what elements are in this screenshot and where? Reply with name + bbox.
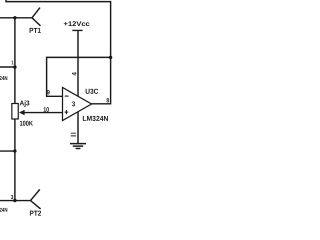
svg-text:1: 1: [11, 60, 13, 66]
svg-text:PT2: PT2: [30, 209, 42, 218]
svg-text:3: 3: [72, 101, 75, 108]
svg-text:4: 4: [71, 72, 78, 76]
svg-text:8: 8: [106, 97, 109, 104]
svg-text:+12Vcc: +12Vcc: [64, 21, 90, 28]
svg-text:24N: 24N: [0, 208, 8, 214]
svg-text:LM324N: LM324N: [82, 115, 108, 123]
svg-text:100K: 100K: [19, 121, 33, 128]
svg-text:9: 9: [47, 89, 51, 96]
svg-text:Aj3: Aj3: [20, 99, 30, 107]
svg-text:PT1: PT1: [29, 26, 41, 35]
svg-text:24N: 24N: [0, 76, 8, 82]
svg-text:U3C: U3C: [85, 87, 98, 96]
svg-text:10: 10: [43, 107, 49, 114]
